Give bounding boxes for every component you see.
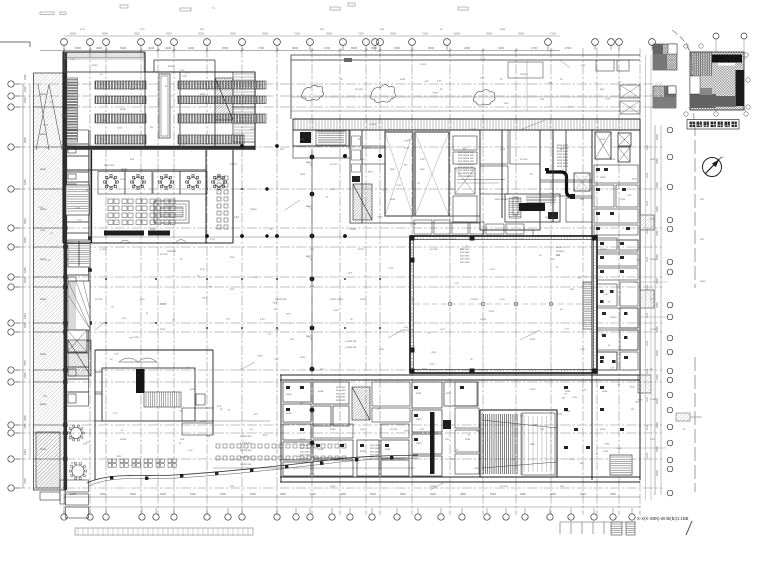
auditorium stage side [522, 413, 555, 475]
dining square tables group [108, 199, 175, 225]
svg-text:xxxx: xxxx [300, 356, 306, 359]
svg-text:x.xx: x.xx [580, 348, 585, 351]
upper dimension line 2 [64, 35, 560, 37]
terrace mid line [291, 96, 640, 98]
key plan main block [690, 52, 744, 110]
svg-text:3900: 3900 [23, 137, 27, 143]
svg-text:3000: 3000 [655, 182, 659, 188]
svg-text:xx xxx: xx xxx [430, 248, 438, 251]
svg-text:3600: 3600 [222, 46, 229, 50]
X room 2 [415, 132, 449, 216]
svg-text:x.xx: x.xx [140, 28, 145, 31]
hall boundary line [90, 236, 410, 238]
svg-text:xxxx: xxxx [160, 328, 166, 331]
svg-text:xxxx: xxxx [600, 428, 606, 431]
svg-text:5400: 5400 [23, 74, 27, 80]
svg-text:xxxx: xxxx [416, 418, 422, 421]
svg-text:x.xx: x.xx [217, 405, 222, 408]
auditorium aisle slopes [482, 413, 557, 475]
svg-text:5400: 5400 [23, 86, 27, 92]
svg-text:x.xx: x.xx [250, 128, 255, 131]
svg-text:xxxx: xxxx [330, 428, 336, 431]
svg-text:x.xx: x.xx [650, 218, 655, 221]
left stair 1 [66, 185, 89, 215]
svg-text:x.xx: x.xx [564, 328, 569, 331]
annex cafe tables row [108, 459, 176, 467]
svg-text:xxxx: xxxx [400, 78, 406, 81]
svg-text:xxxx: xxxx [433, 92, 439, 95]
svg-text:x.xx: x.xx [113, 412, 118, 415]
svg-text:xxxx: xxxx [446, 392, 452, 395]
svg-text:xxxx: xxxx [40, 402, 47, 406]
svg-text:xxx xxxx: xxx xxxx [300, 457, 310, 460]
svg-text:xxxx: xxxx [200, 93, 206, 96]
svg-text:x.xx: x.xx [70, 58, 75, 61]
svg-text:2700: 2700 [531, 46, 538, 50]
svg-text:x xxxx xxx: x xxxx xxx [240, 456, 252, 459]
courtyard corner piers [410, 236, 598, 374]
annex elevator shaft black [136, 369, 145, 393]
svg-text:4200: 4200 [148, 46, 155, 50]
bottom cluster black bits [286, 386, 624, 449]
svg-text:x.xx: x.xx [404, 147, 409, 150]
svg-text:x.xx: x.xx [75, 206, 80, 209]
svg-text:x xxx-x xxxxx: x xxx-x xxxxx [440, 237, 457, 241]
svg-text:3900: 3900 [23, 415, 27, 421]
svg-text:xxxx: xxxx [358, 247, 364, 251]
svg-text:xxxx: xxxx [117, 455, 123, 458]
svg-text:xxxx: xxxx [474, 467, 480, 470]
key plan patch B [653, 86, 676, 108]
svg-text:xxxx: xxxx [646, 144, 649, 150]
svg-text:xxxx: xxxx [205, 102, 211, 105]
svg-text:xxxx: xxxx [604, 443, 610, 446]
svg-text:x.xxx: x.xxx [420, 63, 427, 66]
svg-text:4200: 4200 [165, 46, 172, 50]
svg-text:x xxxx xxx: x xxxx xxx [345, 340, 357, 343]
svg-text:xxxx: xxxx [378, 216, 384, 219]
svg-text:xxx: xxx [390, 167, 395, 171]
site gate mark [676, 413, 690, 421]
svg-text:x xxxx xxx: x xxxx xxx [275, 298, 287, 301]
svg-text:x.xx: x.xx [77, 218, 82, 221]
svg-text:4500: 4500 [262, 32, 268, 36]
svg-text:xxxx: xxxx [262, 434, 268, 437]
svg-text:3600: 3600 [130, 492, 136, 496]
svg-text:x.xx: x.xx [606, 97, 611, 100]
svg-text:xxxx: xxxx [120, 107, 127, 111]
svg-text:xxxx: xxxx [286, 412, 292, 415]
left strip dense hatch block [36, 432, 60, 488]
svg-text:xxxx: xxxx [533, 424, 539, 427]
svg-text:x.xx: x.xx [61, 115, 66, 118]
svg-text:xxx xxxx: xxx xxxx [370, 457, 380, 460]
svg-text:xxxx: xxxx [40, 167, 47, 171]
svg-text:7200: 7200 [358, 32, 364, 36]
terrace parapet [291, 55, 640, 119]
svg-text:x.xx: x.xx [454, 282, 459, 285]
svg-text:x.xxx: x.xxx [132, 335, 139, 339]
svg-text:xxx xxxx: xxx xxxx [336, 399, 346, 402]
svg-text:x.xx: x.xx [490, 268, 495, 271]
bottom rooms labels [286, 390, 608, 453]
svg-text:xxxx: xxxx [318, 390, 324, 393]
svg-text:xxx: xxx [520, 238, 525, 241]
courtyard center dashed axis [414, 303, 593, 305]
svg-text:xxxx: xxxx [632, 178, 638, 181]
svg-text:xxxx: xxxx [646, 368, 649, 374]
svg-text:xxxxx: xxxxx [230, 163, 237, 166]
svg-text:1800: 1800 [655, 278, 659, 284]
svg-text:xxxx: xxxx [40, 229, 46, 232]
left strip partition lines [34, 107, 65, 459]
upper cluster shaft strip [350, 130, 362, 223]
svg-text:xxxx: xxxx [160, 302, 167, 306]
svg-text:4500: 4500 [166, 32, 172, 36]
hall minor column markers [105, 188, 381, 329]
svg-text:4350: 4350 [655, 302, 659, 308]
svg-text:x.xx: x.xx [120, 178, 125, 181]
scattered annotation labels [95, 58, 657, 488]
grid bubbles bottom row [61, 514, 635, 520]
svg-text:x.xxx: x.xxx [100, 248, 107, 251]
svg-text:xxxx: xxxx [572, 396, 578, 399]
svg-text:3600: 3600 [75, 46, 82, 50]
svg-text:xxxxx: xxxxx [600, 248, 607, 251]
east wing small rooms beside courtyard [597, 240, 638, 370]
svg-text:xxx xxxxx xxx: xxx xxxxx xxx [458, 175, 474, 178]
site lines east [645, 55, 647, 500]
courtyard wall hatch top [411, 236, 593, 239]
svg-text:xxx: xxx [180, 438, 185, 441]
svg-text:xxxx: xxxx [185, 72, 191, 75]
svg-text:xxxxxx: xxxxxx [167, 249, 177, 253]
east wing balconies [640, 215, 654, 230]
left strip room labels [40, 92, 47, 451]
bottom bubble ticks [64, 508, 632, 514]
left service rooms column wall [64, 52, 68, 490]
svg-text:xxxx: xxxx [333, 309, 339, 312]
auditorium raked seating comb [484, 414, 518, 474]
svg-text:5400: 5400 [250, 492, 256, 496]
svg-text:xxx: xxx [530, 442, 535, 446]
svg-text:xxxx: xxxx [500, 148, 506, 151]
right dimension lines [654, 125, 656, 495]
svg-text:x.xx: x.xx [254, 276, 259, 279]
svg-text:x.xx: x.xx [200, 268, 205, 271]
svg-text:20B: 20B [121, 168, 128, 172]
svg-text:xxx xxxx: xxx xxxx [460, 261, 470, 264]
svg-text:3900: 3900 [23, 218, 27, 224]
svg-text:1.LM: 1.LM [232, 215, 239, 219]
svg-text:xxxx: xxxx [646, 452, 649, 458]
svg-text:xxxx: xxxx [601, 333, 607, 336]
svg-text:3600: 3600 [610, 492, 616, 496]
svg-text:x.xx: x.xx [131, 464, 136, 467]
library east room rungs [234, 74, 254, 104]
svg-text:5400: 5400 [23, 372, 27, 378]
svg-text:x.xxxx: x.xxxx [470, 297, 478, 301]
svg-text:x.xx: x.xx [46, 259, 51, 262]
svg-text:xxxx: xxxx [404, 430, 410, 433]
svg-text:xxxx: xxxx [300, 173, 306, 176]
annex entry porch [119, 358, 157, 362]
extra smudge batch 2 [38, 64, 643, 470]
terrace planter boxes NE [620, 85, 640, 98]
svg-text:4200: 4200 [498, 46, 505, 50]
svg-text:xxxx: xxxx [557, 412, 563, 415]
bottom ladder 1 [611, 522, 622, 535]
courtyard column circles [448, 302, 553, 306]
svg-text:x.xx: x.xx [500, 298, 505, 301]
bottom east stair [610, 455, 632, 475]
svg-text:xxxx: xxxx [556, 246, 562, 249]
svg-text:xxxx: xxxx [416, 392, 422, 395]
svg-text:4800: 4800 [580, 492, 586, 496]
svg-text:x.xx: x.xx [330, 188, 335, 191]
svg-text:xxxx: xxxx [385, 448, 391, 451]
svg-text:xxx: xxx [230, 255, 235, 259]
svg-text:3600: 3600 [100, 492, 106, 496]
stair schedule text block [557, 144, 569, 168]
waiting seat rows [216, 444, 346, 460]
library top band hatch [64, 53, 144, 58]
svg-text:3600: 3600 [371, 46, 378, 50]
svg-text:xxx: xxx [540, 98, 545, 101]
svg-text:xxx: xxx [560, 485, 565, 488]
svg-text:xxxx: xxxx [646, 340, 649, 346]
annex small rooms east [182, 408, 213, 421]
svg-text:4800: 4800 [460, 492, 466, 496]
library center shaft [159, 74, 170, 138]
svg-text:5400: 5400 [23, 313, 27, 319]
dining chair column east [217, 176, 228, 229]
servery counter black [104, 231, 144, 236]
left rooms col lower extension [40, 480, 89, 518]
bookshelf comb row 4 [95, 135, 146, 144]
east annotation leaders [596, 282, 668, 448]
svg-text:8000: 8000 [351, 46, 358, 50]
svg-text:~: ~ [212, 6, 215, 12]
small X room mid [574, 173, 590, 191]
svg-text:xxxx: xxxx [600, 138, 606, 141]
svg-text:5400: 5400 [23, 179, 27, 185]
svg-text:xxxx: xxxx [465, 438, 471, 441]
svg-text:5400: 5400 [190, 492, 196, 496]
east inner dimension numbers [646, 144, 649, 458]
annex lobby [102, 368, 195, 421]
courtyard inner grid lines [450, 240, 551, 369]
svg-text:x.xx: x.xx [389, 267, 394, 270]
key plan top bubbles [713, 33, 719, 39]
svg-text:xxxx: xxxx [92, 63, 98, 67]
svg-text:x.xxx: x.xxx [480, 318, 487, 321]
svg-text:x.xx: x.xx [390, 458, 395, 461]
stacked annotation labels bottom [240, 298, 357, 466]
bottom west rooms [283, 382, 349, 476]
svg-text:xxxx: xxxx [603, 450, 609, 453]
terrace tree blob 2 [370, 85, 395, 103]
column grid vertical lines [64, 48, 640, 515]
svg-text:3600: 3600 [70, 32, 76, 36]
svg-text:x.xx: x.xx [617, 447, 622, 450]
left hatched corridor strip [34, 73, 65, 490]
private dining rooms with round tables [98, 172, 226, 195]
svg-text:xxxx: xxxx [182, 75, 188, 78]
svg-text:x.xx: x.xx [437, 80, 442, 83]
key plan caption glyphs [690, 122, 737, 128]
bottom label smudge clusters [300, 248, 470, 460]
courtyard east louvre band [583, 282, 592, 329]
site access road arc [672, 30, 694, 120]
svg-text:xxxx: xxxx [190, 388, 196, 391]
svg-text:x.xx: x.xx [610, 367, 615, 370]
left elevator [67, 330, 87, 352]
svg-text:xxxx: xxxx [330, 485, 336, 488]
left wall column dots [63, 145, 92, 461]
bottom diagonal slash [686, 521, 692, 535]
annex west column rooms [95, 372, 102, 392]
duct S-bend [546, 172, 574, 197]
svg-text:3600: 3600 [430, 492, 436, 496]
svg-text:7200: 7200 [550, 32, 556, 36]
svg-text:xxxx: xxxx [646, 200, 649, 206]
svg-text:x.xx: x.xx [87, 355, 92, 358]
svg-text:4350: 4350 [655, 230, 659, 236]
svg-text:x.xx: x.xx [188, 449, 193, 452]
svg-text:xxxx: xxxx [504, 102, 510, 105]
svg-text:xx xxx: xx xxx [390, 428, 398, 431]
key plan patch A [653, 44, 677, 70]
svg-text:xxxx: xxxx [602, 390, 608, 393]
svg-text:xxxx: xxxx [69, 438, 75, 441]
site boundary vertical [694, 122, 696, 288]
svg-text:x xxxx xxx: x xxxx xxx [240, 449, 252, 452]
kitchen dark equipment 2 [519, 203, 545, 211]
left escalator fan [68, 281, 90, 330]
svg-text:3000: 3000 [655, 134, 659, 140]
hall dots x267 [265, 187, 268, 237]
svg-text:x.xx: x.xx [38, 206, 43, 209]
svg-text:xxxx: xxxx [40, 92, 47, 96]
mid-hall leader mark [388, 330, 414, 338]
dining block outer walls [63, 150, 233, 243]
svg-text:xxxx: xxxx [530, 388, 536, 391]
dining south doors [120, 240, 187, 244]
left stair 2 double run [68, 240, 90, 267]
svg-text:x.xx: x.xx [634, 281, 639, 284]
svg-text:xxxxx: xxxxx [370, 123, 377, 126]
svg-text:x.xx: x.xx [140, 298, 145, 301]
left dimension line [22, 84, 24, 488]
right wing dense bits [596, 168, 630, 359]
svg-text:x.xx: x.xx [440, 328, 445, 331]
svg-text:xxxx: xxxx [500, 28, 506, 31]
svg-text:xxxx: xxxx [489, 310, 495, 313]
svg-text:1800: 1800 [655, 206, 659, 212]
annex round table 2 [72, 465, 84, 477]
bottom cluster bottom wall [280, 477, 640, 482]
svg-text:xxxx: xxxx [202, 297, 208, 300]
svg-text:xxxx: xxxx [646, 424, 649, 430]
svg-text:4200: 4200 [464, 46, 471, 50]
svg-text:xx xxx: xx xxx [95, 298, 103, 301]
svg-text:xxx xxx: xxx xxx [104, 163, 114, 167]
svg-text:3600: 3600 [454, 32, 460, 36]
north arrow [703, 158, 722, 177]
svg-text:5400: 5400 [220, 492, 226, 496]
svg-text:3600: 3600 [486, 32, 492, 36]
bottom escalator [352, 387, 370, 420]
svg-text:5400: 5400 [490, 492, 496, 496]
upper cluster extra partitions [293, 130, 592, 236]
svg-text:2700: 2700 [324, 46, 331, 50]
big hall room [480, 130, 540, 230]
svg-text:5400: 5400 [400, 492, 406, 496]
library east rooms [233, 72, 255, 107]
svg-text:5400: 5400 [370, 492, 376, 496]
svg-text:xxxx: xxxx [286, 393, 292, 396]
bottom ladder 2 [626, 522, 635, 535]
svg-text:4500: 4500 [230, 32, 236, 36]
auditorium shell [480, 410, 557, 477]
svg-text:x.xx: x.xx [80, 28, 85, 31]
svg-text:3600: 3600 [428, 46, 435, 50]
svg-text:xxxx: xxxx [422, 367, 428, 370]
feature stair concentric [154, 201, 189, 223]
svg-text:x.xx: x.xx [210, 238, 215, 241]
svg-text:x xxxx xxx: x xxxx xxx [240, 435, 252, 438]
library outer walls [63, 52, 255, 243]
upper cluster escalator [353, 184, 372, 220]
top dimension line 1 [40, 50, 560, 52]
terrace tree blob 1 [301, 85, 323, 101]
top dimension numbers [75, 46, 572, 50]
svg-text:xxxx: xxxx [530, 338, 536, 341]
grid bubbles right dimension column [667, 127, 673, 496]
kitchen inner marks [526, 196, 556, 202]
svg-text:xx xxx: xx xxx [500, 485, 508, 488]
svg-text:xxxx: xxxx [646, 396, 649, 402]
svg-text:x.xx: x.xx [180, 69, 185, 72]
svg-text:4800: 4800 [550, 492, 556, 496]
svg-text:5400: 5400 [310, 492, 316, 496]
svg-text:7800: 7800 [23, 423, 27, 429]
svg-text:4500: 4500 [198, 32, 204, 36]
bottom mid rooms [313, 382, 478, 476]
svg-text:x xxxx xxx: x xxxx xxx [240, 463, 252, 466]
terrace tree blob 3 [473, 90, 495, 106]
svg-text:3000: 3000 [655, 422, 659, 428]
svg-text:xxx: xxx [130, 158, 135, 161]
svg-text:xxx: xxx [420, 167, 425, 171]
svg-text:xxxx: xxxx [480, 58, 486, 61]
svg-text:7800: 7800 [23, 478, 27, 484]
bookshelf comb row 1 [95, 81, 146, 89]
library vertical comb stack strip [67, 78, 78, 142]
svg-text:7200: 7200 [422, 32, 428, 36]
svg-text:x.xx: x.xx [582, 389, 587, 392]
bottom cluster left wall [280, 375, 282, 482]
right wing gap rooms [597, 238, 638, 370]
colonnade wall line [311, 150, 313, 373]
svg-text:3000: 3000 [655, 470, 659, 476]
upper cluster corridor walls [501, 130, 503, 218]
hall column dots colonnade [205, 144, 382, 445]
svg-text:xxxx: xxxx [568, 105, 574, 108]
dining top wall [63, 169, 206, 171]
svg-text:xxxx: xxxx [646, 284, 649, 290]
